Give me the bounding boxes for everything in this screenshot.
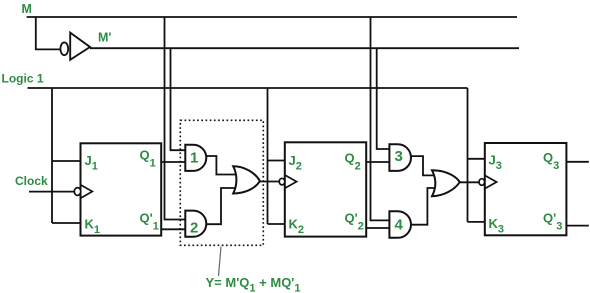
wire Q'1 to AND2	[161, 228, 185, 230]
wire Logic1 drop to J1/K1	[52, 88, 81, 223]
flip-flop FF1 box	[81, 143, 162, 235]
or-gate OR1	[233, 166, 260, 193]
wire Q'2 to AND4	[366, 227, 389, 229]
pin Q'2 label	[345, 211, 364, 233]
wire M' bus	[90, 47, 519, 49]
wire OR1 output to FF2 clock	[259, 181, 280, 183]
pin K3 label	[489, 216, 505, 236]
svg-text:Logic 1: Logic 1	[2, 72, 44, 86]
wire Logic 1 bus	[28, 87, 468, 89]
pin Q3 label	[543, 150, 559, 172]
node M' label	[98, 31, 111, 45]
wire M' drop stage1 to AND1	[171, 48, 186, 150]
gate 1 number label	[190, 150, 198, 167]
pin Q1 label	[140, 148, 156, 170]
wire Q3 output	[566, 161, 588, 163]
flip-flop FF2 clock bubble	[279, 178, 285, 185]
wire AND4 output to OR2	[411, 188, 439, 225]
wire M' drop stage2 to AND3	[377, 48, 390, 149]
wire AND1 output to OR1	[207, 156, 240, 175]
flip-flop FF3 clock triangle	[485, 175, 497, 188]
pin Q'3 label	[543, 211, 562, 233]
and-gate 4	[389, 211, 411, 238]
gate 3 number label	[395, 148, 403, 165]
wire Q'3 output	[566, 225, 588, 227]
svg-text:Clock: Clock	[15, 174, 48, 188]
dotted enclosure box Y	[180, 120, 263, 245]
pin J1 label	[85, 153, 98, 173]
svg-text:3: 3	[395, 148, 403, 165]
wire M bus	[27, 16, 517, 18]
flip-flop FF2 clock triangle	[285, 175, 297, 188]
and-gate 2	[185, 211, 206, 237]
wire AND2 output to OR1	[207, 188, 240, 224]
pin K1 label	[85, 217, 101, 237]
inverter U1 bubble	[60, 42, 68, 55]
gate 4 number label	[395, 217, 404, 234]
svg-text:2: 2	[190, 220, 198, 237]
and-gate 3	[389, 144, 411, 171]
wire AND3 output to OR2	[411, 156, 439, 175]
node Logic 1 label	[2, 72, 44, 86]
and-gate 1	[185, 145, 206, 171]
pin J3 label	[489, 153, 502, 173]
svg-text:1: 1	[190, 150, 198, 167]
wire M drop stage1 to AND2	[165, 17, 186, 220]
wire M drop stage2 to AND4	[371, 17, 390, 220]
flip-flop FF3 box	[485, 143, 567, 235]
equation Y label	[206, 275, 301, 293]
pin Q'1 label	[140, 211, 159, 233]
pin K2 label	[289, 217, 305, 237]
wire inverter input from M	[36, 17, 61, 49]
flip-flop FF1 clock triangle	[81, 185, 93, 198]
gate 2 number label	[190, 220, 198, 237]
svg-text:M': M'	[98, 31, 111, 45]
inverter U1 triangle	[70, 33, 90, 60]
wire Q2 to AND3	[366, 161, 389, 163]
svg-text:4: 4	[395, 217, 404, 234]
flip-flop FF2 box	[285, 142, 366, 236]
wire OR2 output to FF3 clock	[459, 181, 479, 183]
wire Q1 to AND1	[161, 161, 185, 163]
wire Logic1 drop to J2/K2	[268, 88, 285, 224]
node M label	[22, 2, 32, 16]
wire Clock input	[29, 191, 75, 193]
svg-text:M: M	[22, 2, 32, 16]
or-gate OR2	[432, 170, 460, 196]
flip-flop FF3 clock bubble	[479, 179, 485, 186]
wire Logic1 drop to J3/K3	[468, 88, 485, 222]
flip-flop FF1 clock bubble	[74, 188, 80, 196]
pin J2 label	[289, 153, 302, 173]
node Clock label	[15, 174, 48, 188]
pin Q2 label	[345, 151, 361, 173]
callout leader line	[219, 247, 222, 277]
